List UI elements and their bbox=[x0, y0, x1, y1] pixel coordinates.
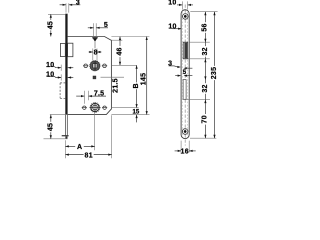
3 leader bbox=[169, 66, 178, 67]
labels left figure bbox=[46, 0, 147, 160]
svg-text:15: 15 bbox=[133, 109, 140, 116]
32 upper bottom arrow (outside, below 58.8) bbox=[204, 59, 206, 63]
5 dim ext verticals bbox=[93, 23, 95, 36]
deadbolt thrown position (dashed) bbox=[60, 83, 65, 98]
follower left screw bbox=[84, 64, 88, 68]
arrowheads left figure bbox=[50, 4, 148, 156]
deadbolt cutout bbox=[183, 80, 186, 100]
svg-text:3: 3 bbox=[76, 0, 80, 6]
latch housing (inside case) bbox=[68, 43, 73, 57]
svg-text:B: B bbox=[133, 83, 140, 88]
dim 45 upper line bbox=[50, 14, 52, 36]
svg-text:8: 8 bbox=[94, 49, 98, 56]
10 top arrows bbox=[179, 4, 182, 6]
svg-text:56: 56 bbox=[202, 23, 209, 31]
top screw hole bbox=[183, 14, 189, 20]
faceplate lower part (hollow) bbox=[65, 115, 67, 136]
bottom ext verticals bbox=[64, 140, 66, 158]
arrowheads right figure bbox=[177, 4, 215, 152]
dim 7.5 line bbox=[76, 95, 84, 97]
follower square spindle hole bbox=[93, 64, 97, 68]
svg-text:32: 32 bbox=[202, 84, 209, 92]
svg-text:7.5: 7.5 bbox=[94, 91, 104, 98]
cylinder hole circle bbox=[91, 103, 99, 111]
5 arrows bbox=[90, 27, 93, 29]
svg-text:45: 45 bbox=[47, 123, 54, 131]
5 leader bbox=[175, 75, 178, 77]
bottom screw hole bbox=[182, 129, 188, 135]
dim 10 second leader bbox=[47, 77, 61, 78]
latch bottom ext bbox=[188, 58, 210, 60]
16 ext verticals bbox=[180, 141, 182, 153]
3 arrows bbox=[63, 4, 66, 6]
cylinder right screw bbox=[103, 106, 106, 109]
follower hub knurled disk bbox=[90, 61, 100, 71]
svg-text:32: 32 bbox=[202, 47, 209, 55]
plate top ext bbox=[190, 11, 217, 13]
label 45 lower bbox=[48, 122, 54, 132]
label 46 bbox=[117, 46, 123, 57]
label B bbox=[134, 82, 140, 89]
8 dim ext verticals bbox=[92, 49, 94, 61]
label 70 bbox=[202, 114, 208, 125]
dim 8 arrow tails bbox=[89, 51, 93, 53]
145 arrows bbox=[146, 37, 148, 41]
svg-text:21.5: 21.5 bbox=[113, 78, 120, 93]
dim 3 line bbox=[60, 4, 66, 6]
svg-text:46: 46 bbox=[117, 47, 124, 55]
56 arrows bbox=[204, 12, 206, 16]
svg-text:3: 3 bbox=[168, 61, 172, 68]
45 lower arrows bbox=[50, 115, 52, 119]
8 arrows bbox=[89, 51, 92, 53]
centerline marker under case top bbox=[92, 37, 97, 38]
case bottom ext right bbox=[111, 114, 149, 116]
latch top ext bbox=[189, 41, 210, 43]
svg-text:10: 10 bbox=[168, 0, 176, 7]
cylinder center ext bbox=[111, 107, 138, 109]
label 235 bbox=[212, 66, 218, 80]
5 arrows bbox=[178, 75, 181, 77]
thin ext lines right figure bbox=[181, 1, 218, 152]
svg-text:235: 235 bbox=[211, 67, 218, 79]
svg-text:81: 81 bbox=[85, 153, 93, 160]
32 lower top arrow (outside, above 79.9) bbox=[204, 76, 206, 80]
case bottom ext left bbox=[50, 114, 68, 116]
dimension lines, left figure bbox=[47, 5, 146, 155]
follower center ext bbox=[111, 64, 136, 66]
dim 10 first leader bbox=[47, 67, 61, 68]
faceplate top ext bbox=[48, 13, 65, 15]
7.5 ext verticals bbox=[83, 91, 85, 104]
svg-text:70: 70 bbox=[201, 115, 208, 123]
svg-text:16: 16 bbox=[181, 148, 189, 155]
faceplate foot crossbar bbox=[62, 135, 69, 136]
square below hub bbox=[93, 76, 96, 79]
81 arrows bbox=[65, 154, 68, 156]
235 line bbox=[214, 12, 216, 139]
dim 81 line bbox=[65, 154, 83, 156]
faceplate (side view, dark bar) bbox=[65, 14, 67, 115]
15 arrow below bbox=[136, 115, 138, 119]
21.5 reference line bbox=[101, 76, 125, 78]
235 arrows bbox=[213, 12, 215, 16]
cylinder hole knurled ring bbox=[90, 103, 100, 113]
latch cutout bbox=[183, 42, 188, 59]
centerline dashed bbox=[184, 5, 186, 146]
dim 46 line bbox=[119, 37, 121, 66]
10 second leader bbox=[172, 28, 181, 30]
16 arrow tails bbox=[175, 150, 182, 152]
thin extension lines, left figure bbox=[44, 3, 150, 158]
dim B line bbox=[136, 65, 138, 107]
10 second arrow bbox=[178, 28, 181, 30]
lock case outline bbox=[68, 37, 112, 115]
labels right figure bbox=[168, 0, 218, 155]
45 upper arrows bbox=[50, 14, 52, 17]
svg-text:5: 5 bbox=[183, 69, 187, 76]
A arrows bbox=[65, 145, 68, 147]
dim 15 below-arrow line bbox=[136, 115, 138, 123]
svg-text:145: 145 bbox=[141, 73, 148, 85]
label 16 bbox=[181, 148, 188, 154]
deadbolt bottom ext bbox=[186, 99, 210, 101]
plate bottom ext bbox=[190, 137, 216, 139]
svg-text:10: 10 bbox=[168, 24, 176, 31]
svg-text:10: 10 bbox=[46, 62, 54, 69]
svg-text:A: A bbox=[77, 144, 82, 151]
label 56 bbox=[202, 22, 208, 33]
follower right screw bbox=[103, 64, 107, 68]
10/10 arrows bbox=[58, 67, 61, 69]
latch bolt fill bbox=[184, 43, 187, 59]
32 lower bottom / 70 top arrow bbox=[204, 100, 206, 104]
chamfer ext bbox=[111, 39, 122, 41]
10 top arrow tails bbox=[177, 4, 182, 6]
label 32 upper bbox=[202, 46, 208, 57]
dim 145 line bbox=[146, 37, 148, 115]
label 32 lower bbox=[203, 83, 209, 94]
faceplate bottom ext bbox=[44, 138, 68, 140]
cylinder left screw bbox=[83, 106, 86, 109]
hidden case edges (dashed) bbox=[182, 12, 184, 137]
10 top ext verticals bbox=[181, 1, 183, 9]
faceplate plate outline (stadium) bbox=[181, 10, 189, 139]
label 45 upper bbox=[48, 20, 54, 30]
dim 45 lower line bbox=[50, 115, 52, 139]
chain line 56/32/32/70 bbox=[204, 12, 206, 139]
3 dim ext verticals bbox=[65, 3, 67, 12]
dim A line bbox=[65, 145, 75, 147]
46 arrows bbox=[119, 37, 121, 41]
dim 5 arrow tails bbox=[88, 27, 94, 29]
70 bottom arrow bbox=[204, 135, 206, 139]
dim lines right figure bbox=[169, 5, 215, 151]
latch bolt head (left of faceplate) bbox=[60, 44, 65, 57]
cylinder inner circle bbox=[93, 105, 98, 110]
svg-text:45: 45 bbox=[47, 21, 54, 29]
cylinder cross bbox=[90, 102, 101, 113]
svg-text:10: 10 bbox=[46, 72, 54, 79]
3 arrows bbox=[177, 66, 180, 68]
case top ext (right) bbox=[111, 36, 149, 38]
7.5 arrows bbox=[81, 95, 84, 97]
svg-text:5: 5 bbox=[104, 22, 108, 29]
10/10 ext vertical ticks bbox=[60, 65, 62, 71]
B arrows bbox=[136, 65, 138, 69]
16 arrows bbox=[178, 150, 181, 152]
